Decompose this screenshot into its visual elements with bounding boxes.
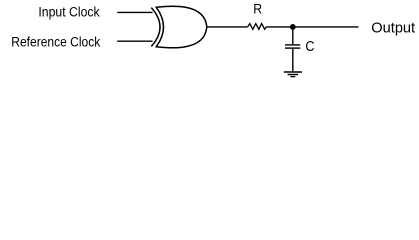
wire resistor to output <box>266 26 358 28</box>
ground symbol bar 2 <box>288 74 298 76</box>
capacitor C top plate <box>285 44 300 46</box>
junction node dot <box>290 24 296 30</box>
ground symbol bar 1 <box>284 71 302 73</box>
svg-text:R: R <box>253 1 262 17</box>
svg-text:C: C <box>305 38 314 54</box>
wire input clock to XOR <box>117 11 152 13</box>
resistor R <box>248 24 267 30</box>
svg-text:Input Clock: Input Clock <box>38 4 100 20</box>
ground symbol bar 3 <box>290 76 295 78</box>
wire reference clock to XOR <box>117 40 152 42</box>
XOR gate U1 input extra curve <box>151 8 160 47</box>
wire node to capacitor <box>292 27 294 44</box>
svg-text:Reference Clock: Reference Clock <box>11 33 100 49</box>
XOR gate U1 body <box>156 6 207 48</box>
wire capacitor to ground <box>292 49 294 72</box>
wire XOR output to resistor <box>207 26 248 28</box>
capacitor C bottom plate <box>285 47 300 49</box>
svg-text:Output: Output <box>371 21 415 37</box>
